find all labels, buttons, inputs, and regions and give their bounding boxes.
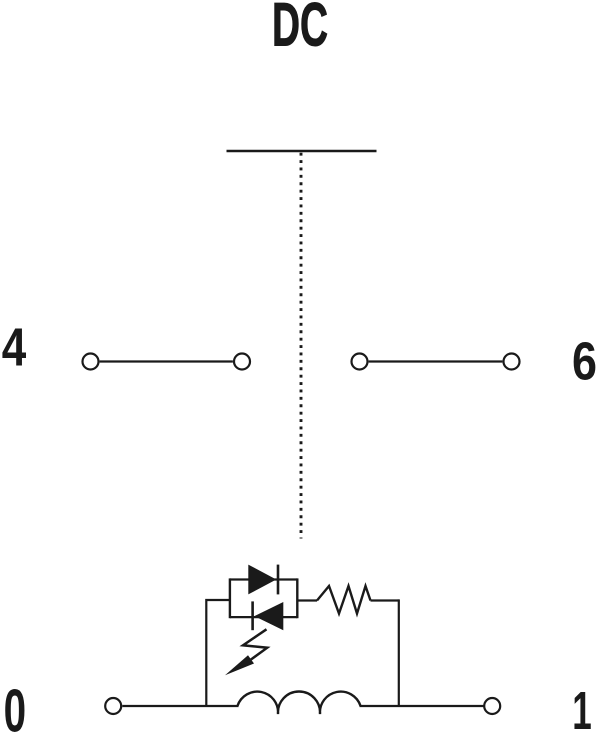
- wire resistor to right vertical: [371, 599, 399, 601]
- svg-text:DC: DC: [272, 0, 328, 59]
- svg-text:6: 6: [572, 332, 597, 392]
- diode pair box right edge: [296, 578, 298, 618]
- contact 4-6 right inner circle: [352, 354, 368, 370]
- wire box to resistor: [297, 599, 317, 601]
- coil terminal 0 circle: [105, 698, 121, 714]
- wire terminal0 to coil: [122, 705, 238, 707]
- contact 4-6 right terminal circle: [504, 354, 520, 370]
- svg-text:4: 4: [2, 317, 27, 377]
- actuator dotted line: [300, 153, 303, 539]
- resistor R1: [317, 586, 371, 614]
- LED D2 (bottom, pointing left): [254, 602, 283, 630]
- wire right vertical branch: [398, 599, 400, 706]
- wire coil to terminal 1: [360, 705, 485, 707]
- diode bottom branch wire: [230, 616, 297, 618]
- diode D1 cathode bar: [277, 565, 280, 595]
- svg-text:0: 0: [4, 677, 27, 734]
- wire left vertical branch: [206, 600, 230, 706]
- contact 4-6 left terminal circle: [83, 354, 99, 370]
- LED lightning arrow: [225, 629, 267, 675]
- diode pair box left edge: [229, 578, 231, 618]
- contact right wire: [369, 360, 503, 362]
- actuator bar: [227, 150, 377, 153]
- coil (inductor): [238, 692, 361, 714]
- diode D1 (top, pointing right): [248, 565, 276, 595]
- LED D2 cathode bar: [251, 601, 254, 630]
- coil terminal 1 circle: [484, 698, 500, 714]
- contact left wire: [100, 360, 233, 362]
- diode top branch wire: [230, 578, 297, 580]
- contact 4-6 left inner circle: [234, 354, 250, 370]
- svg-text:1: 1: [572, 681, 592, 734]
